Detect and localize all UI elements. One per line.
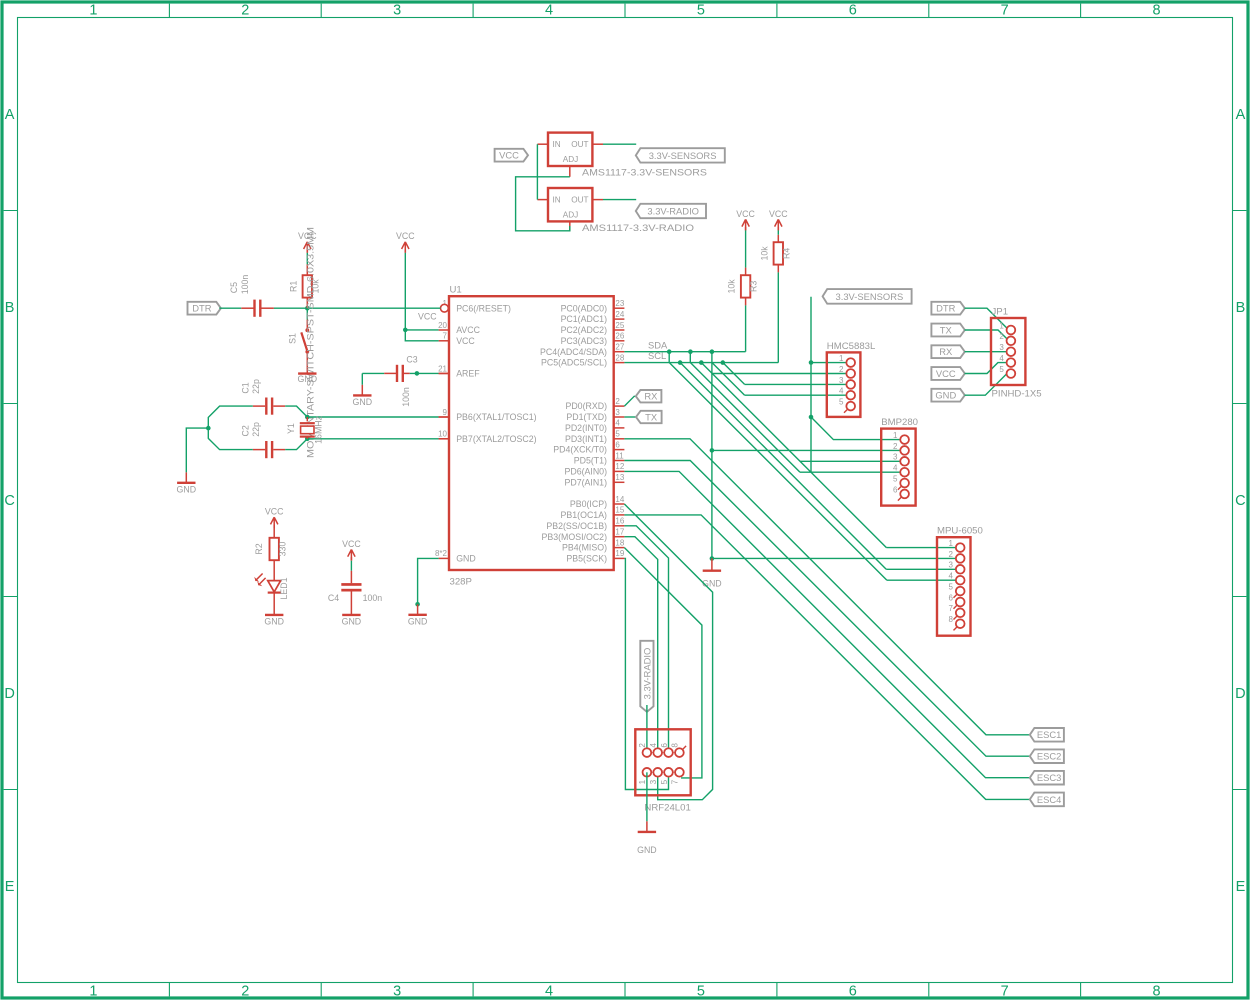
svg-text:A: A xyxy=(5,107,15,123)
net flag ESC1 xyxy=(1030,728,1064,742)
resistor R3 10k xyxy=(727,275,759,297)
svg-text:22p: 22p xyxy=(251,379,261,394)
U1 pin 18 PB4(MISO) xyxy=(562,538,625,552)
svg-text:C: C xyxy=(1235,493,1245,509)
supply VCC above R2 xyxy=(265,507,284,529)
svg-text:DTR: DTR xyxy=(192,303,211,314)
svg-text:4: 4 xyxy=(949,572,954,581)
svg-text:25: 25 xyxy=(615,321,624,330)
svg-text:6: 6 xyxy=(660,743,669,748)
svg-text:10: 10 xyxy=(438,430,447,439)
svg-text:20: 20 xyxy=(438,321,447,330)
svg-text:SDA: SDA xyxy=(648,339,668,350)
svg-text:BMP280: BMP280 xyxy=(881,417,918,428)
wire BMP pin4 xyxy=(800,471,900,473)
wire GND flag to JP1 pin5 xyxy=(965,374,1007,396)
svg-text:19: 19 xyxy=(615,549,624,558)
wire C5 to RESET junction xyxy=(261,307,307,309)
U1 pin 12 PD6(AIN0) xyxy=(564,462,624,476)
net flag TX at JP1 xyxy=(931,324,964,337)
supply VCC above R3 xyxy=(736,209,755,231)
svg-text:23: 23 xyxy=(615,299,624,308)
svg-text:3: 3 xyxy=(615,408,620,417)
node XTAL2 junction xyxy=(305,437,310,442)
svg-text:VCC: VCC xyxy=(769,209,788,219)
svg-text:6: 6 xyxy=(615,440,620,449)
supply VCC at U1 xyxy=(396,231,415,253)
svg-text:R3: R3 xyxy=(749,281,759,292)
svg-text:2: 2 xyxy=(893,442,898,451)
svg-text:3: 3 xyxy=(949,561,954,570)
svg-text:3.3V-SENSORS: 3.3V-SENSORS xyxy=(836,291,904,302)
svg-text:AREF: AREF xyxy=(456,369,480,379)
U1 pin 9 PB6(XTAL1/TOSC1) xyxy=(439,408,537,422)
svg-text:LED1: LED1 xyxy=(279,577,289,599)
svg-text:AVCC: AVCC xyxy=(456,325,480,335)
svg-text:6: 6 xyxy=(849,983,857,999)
U1 pin 7 VCC xyxy=(439,332,476,346)
U1 pin 23 PC0(ADC0) xyxy=(561,299,625,313)
wire SCL from U1 pin 28 xyxy=(624,362,778,364)
svg-text:PD0(RXD): PD0(RXD) xyxy=(565,401,607,411)
svg-text:3: 3 xyxy=(999,343,1004,352)
svg-text:ESC3: ESC3 xyxy=(1037,772,1062,783)
wire BMP pin2 from GND rail xyxy=(712,449,900,451)
supply VCC above R1 xyxy=(298,231,317,253)
net flag ESC3 xyxy=(1030,771,1064,785)
node SCL junction 1 xyxy=(678,360,683,365)
svg-text:6: 6 xyxy=(893,485,898,494)
svg-text:MPU-6050: MPU-6050 xyxy=(937,525,983,536)
wire diagonal to HMC pin3 xyxy=(723,363,745,385)
svg-text:2: 2 xyxy=(241,3,249,19)
svg-text:3: 3 xyxy=(393,3,401,19)
ground at MPU pin2 xyxy=(702,558,722,588)
svg-text:7: 7 xyxy=(949,604,954,613)
wire GND to C3 xyxy=(362,372,396,374)
wire to U1 pin 20 xyxy=(405,329,438,331)
value label of S1 xyxy=(306,227,316,458)
net flag RX at JP1 xyxy=(931,345,964,358)
wire HMC pin2 from GND rail xyxy=(712,373,847,375)
svg-text:10k: 10k xyxy=(759,246,769,261)
wire LED1 to ground xyxy=(273,593,275,615)
wire U1 pin 17 to NRF pin4 xyxy=(624,537,657,753)
svg-text:VCC: VCC xyxy=(396,231,415,241)
svg-text:JP1: JP1 xyxy=(992,306,1009,317)
node SDA junction 3 xyxy=(710,349,715,354)
svg-text:4: 4 xyxy=(545,983,553,999)
svg-text:D: D xyxy=(1235,686,1245,702)
resistor R2 330 xyxy=(254,538,288,560)
svg-text:1: 1 xyxy=(89,3,97,19)
svg-text:NRF24L01: NRF24L01 xyxy=(644,803,690,814)
wire HMC pin1 from rail xyxy=(811,362,846,364)
svg-text:1: 1 xyxy=(638,779,647,784)
supply VCC above R4 xyxy=(769,209,788,231)
svg-text:26: 26 xyxy=(615,332,624,341)
svg-text:28: 28 xyxy=(615,353,624,362)
svg-text:AMS1117-3.3V-SENSORS: AMS1117-3.3V-SENSORS xyxy=(582,168,707,179)
wire VCC to R4 xyxy=(777,227,779,242)
svg-text:3: 3 xyxy=(893,453,898,462)
svg-text:7: 7 xyxy=(671,779,680,784)
svg-text:3: 3 xyxy=(839,376,844,385)
svg-text:PD7(AIN1): PD7(AIN1) xyxy=(564,477,607,487)
wire C4 to ground xyxy=(350,592,352,615)
svg-text:328P: 328P xyxy=(450,576,472,587)
U1 pin 26 PC3(ADC3) xyxy=(561,332,625,346)
connector BMP280 xyxy=(881,417,918,505)
wire U1 pin 12 to ESC3 xyxy=(624,471,1029,777)
svg-text:2: 2 xyxy=(615,397,620,406)
U1 pin 17 PB3(MOSI/OC2) xyxy=(542,528,625,542)
wire U1 pin 5 to ESC1 xyxy=(624,439,1029,735)
U1 pin 21 AREF xyxy=(438,364,480,378)
net flag ESC2 xyxy=(1030,749,1064,763)
wire TX flag to JP1 pin2 xyxy=(965,330,1009,341)
U1 pin 10 PB7(XTAL2/TOSC2) xyxy=(438,430,537,444)
wire U1 pin 8*2 GND down xyxy=(418,558,439,604)
resistor R4 10k xyxy=(759,242,791,264)
net flag 3.3V-RADIO above NRF xyxy=(640,641,653,712)
svg-text:PB7(XTAL2/TOSC2): PB7(XTAL2/TOSC2) xyxy=(456,434,536,444)
svg-text:13: 13 xyxy=(615,473,624,482)
svg-text:C1: C1 xyxy=(240,382,250,393)
U1 pin 3 PD1(TXD) xyxy=(566,408,624,422)
wire VCC flag to JP1 pin4 xyxy=(965,363,1009,374)
svg-text:1: 1 xyxy=(893,431,898,440)
svg-text:PC3(ADC3): PC3(ADC3) xyxy=(561,336,608,346)
wire R2 to LED1 xyxy=(273,560,275,580)
svg-text:VCC: VCC xyxy=(456,336,475,346)
svg-text:C3: C3 xyxy=(406,354,417,364)
wire VCC to R3 xyxy=(745,227,747,275)
svg-text:ESC1: ESC1 xyxy=(1037,729,1062,740)
wire R1 to junction xyxy=(306,298,308,309)
svg-text:5: 5 xyxy=(697,3,705,19)
svg-text:100n: 100n xyxy=(401,387,411,407)
svg-text:1: 1 xyxy=(839,354,844,363)
svg-text:PC5(ADC5/SCL): PC5(ADC5/SCL) xyxy=(541,358,607,368)
connector JP1 PINHD-1X5 xyxy=(991,306,1042,399)
U1 pin 5 PD3(INT1) xyxy=(565,430,624,444)
svg-text:HMC5883L: HMC5883L xyxy=(827,341,876,352)
svg-text:22p: 22p xyxy=(251,422,261,437)
U1 pin 14 PB0(ICP) xyxy=(570,495,625,509)
svg-text:Y1: Y1 xyxy=(286,423,296,434)
svg-text:PB6(XTAL1/TOSC1): PB6(XTAL1/TOSC1) xyxy=(456,412,536,422)
svg-text:PC4(ADC4/SDA): PC4(ADC4/SDA) xyxy=(540,347,607,357)
svg-text:3: 3 xyxy=(649,779,658,784)
svg-text:1: 1 xyxy=(999,321,1004,330)
connector NRF24L01 xyxy=(635,729,691,813)
net flag GND at JP1 xyxy=(931,389,964,402)
wire U1 pin 2 to RX flag xyxy=(624,396,635,406)
svg-text:B: B xyxy=(1236,300,1246,316)
svg-text:A: A xyxy=(1236,107,1246,123)
svg-text:15: 15 xyxy=(615,506,624,515)
svg-text:5: 5 xyxy=(999,365,1004,374)
svg-text:4: 4 xyxy=(893,464,898,473)
svg-text:PD4(XCK/T0): PD4(XCK/T0) xyxy=(553,445,607,455)
svg-text:PC6(/RESET): PC6(/RESET) xyxy=(456,303,511,313)
net flag DTR at JP1 xyxy=(931,302,964,315)
svg-text:2: 2 xyxy=(638,743,647,748)
pin stub ADJ of U3 xyxy=(569,221,571,231)
svg-text:7: 7 xyxy=(443,332,448,341)
node GND rail to MPU pin2 xyxy=(710,556,715,561)
svg-text:ESC2: ESC2 xyxy=(1037,751,1062,762)
svg-text:4: 4 xyxy=(649,743,658,748)
svg-text:10k: 10k xyxy=(727,279,737,294)
svg-text:330: 330 xyxy=(278,542,288,557)
svg-text:DTR: DTR xyxy=(936,303,955,314)
svg-text:GND: GND xyxy=(935,390,956,401)
svg-text:1: 1 xyxy=(949,539,954,548)
regulator U2 AMS1117-3.3V-SENSORS xyxy=(548,133,707,179)
svg-text:11: 11 xyxy=(615,451,624,460)
node AREF junction xyxy=(415,371,420,376)
wire VCC input joining U2.IN to U3.IN xyxy=(536,144,538,199)
regulator U3 AMS1117-3.3V-RADIO xyxy=(548,188,694,234)
svg-text:C5: C5 xyxy=(229,282,239,293)
svg-text:1: 1 xyxy=(89,983,97,999)
svg-text:S1: S1 xyxy=(288,333,298,344)
svg-text:PD2(INT0): PD2(INT0) xyxy=(565,423,607,433)
U1 pin 19 PB5(SCK) xyxy=(566,549,624,563)
svg-text:B: B xyxy=(5,300,15,316)
svg-text:7: 7 xyxy=(1001,3,1009,19)
svg-text:9: 9 xyxy=(443,408,448,417)
node GND junction below U1 xyxy=(415,602,420,607)
svg-text:PD3(INT1): PD3(INT1) xyxy=(565,434,607,444)
capacitor C1 22p xyxy=(240,379,273,415)
node GND rail to BMP pin2 xyxy=(710,448,715,453)
wire SDA junction 1 drop to SCL row xyxy=(668,352,670,363)
wire HMC pin3 xyxy=(745,383,847,385)
wire BMP pin1 from rail xyxy=(811,417,900,440)
wire diagonal to MPU pin4 xyxy=(669,363,887,581)
svg-text:TX: TX xyxy=(940,324,953,335)
pin stub OUT of U2 xyxy=(592,143,603,145)
svg-text:4: 4 xyxy=(545,3,553,19)
svg-text:12: 12 xyxy=(615,462,624,471)
svg-text:GND: GND xyxy=(353,397,373,407)
svg-text:GND: GND xyxy=(342,617,362,627)
wire GND rail from SDA junction 3 xyxy=(711,352,713,559)
svg-text:3.3V-RADIO: 3.3V-RADIO xyxy=(641,648,652,700)
svg-text:6: 6 xyxy=(849,3,857,19)
net flag DTR xyxy=(188,302,221,315)
label C3 xyxy=(406,354,417,364)
svg-text:5: 5 xyxy=(839,398,844,407)
svg-text:GND: GND xyxy=(702,579,722,589)
svg-text:PC2(ADC2): PC2(ADC2) xyxy=(561,325,608,335)
wire XTAL2 junction to U1 pin 10 xyxy=(307,438,449,440)
ground below S1 xyxy=(298,374,318,384)
svg-text:8: 8 xyxy=(1153,3,1161,19)
svg-text:PB5(SCK): PB5(SCK) xyxy=(566,554,607,564)
wire SDA junction 2 drop to SCL row xyxy=(689,352,691,363)
svg-text:7: 7 xyxy=(1001,983,1009,999)
pin stub IN of U3 xyxy=(537,199,548,201)
svg-text:VCC: VCC xyxy=(736,209,755,219)
wire U3.OUT to 3.3V-RADIO xyxy=(603,199,636,201)
wire MPU pin4 xyxy=(887,579,956,581)
ground below crystal loop xyxy=(177,472,197,494)
wire R3 to SDA xyxy=(745,298,747,352)
svg-text:2: 2 xyxy=(949,550,954,559)
svg-text:3.3V-SENSORS: 3.3V-SENSORS xyxy=(649,150,717,161)
svg-text:4: 4 xyxy=(999,354,1004,363)
svg-text:PC0(ADC0): PC0(ADC0) xyxy=(561,303,608,313)
svg-text:5: 5 xyxy=(615,430,620,439)
svg-text:18: 18 xyxy=(615,538,624,547)
wire U1 pin 16 to NRF pin6 xyxy=(624,526,668,753)
node RESET junction xyxy=(305,306,310,311)
svg-text:IN: IN xyxy=(553,196,561,205)
wire junction down to U1 pin 7 xyxy=(405,330,438,341)
wire 3.3V-RADIO to NRF pin2 xyxy=(646,705,648,753)
wire C1 left loop xyxy=(208,406,265,439)
node XTAL1 junction xyxy=(305,415,310,420)
U1 pin 11 PD5(T1) xyxy=(574,451,625,465)
U1 pin 27 PC4(ADC4/SDA) xyxy=(540,343,625,357)
U1 pin 13 PD7(AIN1) xyxy=(564,473,624,487)
svg-text:27: 27 xyxy=(615,343,624,352)
capacitor C2 22p xyxy=(240,422,273,458)
svg-text:RX: RX xyxy=(939,346,953,357)
svg-text:24: 24 xyxy=(615,310,624,319)
svg-text:5: 5 xyxy=(949,583,954,592)
svg-text:5: 5 xyxy=(697,983,705,999)
svg-text:PB4(MISO): PB4(MISO) xyxy=(562,543,607,553)
supply flag VCC at regulators xyxy=(495,149,528,162)
capacitor C3 100n xyxy=(396,365,411,407)
svg-text:U1: U1 xyxy=(450,284,462,295)
svg-text:VCC: VCC xyxy=(499,150,519,161)
wire BMP pin3 xyxy=(800,460,900,462)
wire NRF pin1 to ground xyxy=(646,772,648,821)
svg-text:E: E xyxy=(5,879,15,895)
wire junction to S1 xyxy=(306,308,308,319)
svg-text:PD1(TXD): PD1(TXD) xyxy=(566,412,607,422)
supply VCC above C4 xyxy=(342,539,361,561)
node SDA junction 2 xyxy=(688,349,693,354)
net flag 3.3V-SENSORS at rail xyxy=(823,289,912,304)
svg-text:R4: R4 xyxy=(781,248,791,259)
svg-text:PC1(ADC1): PC1(ADC1) xyxy=(561,314,608,324)
wire VCC down to AVCC junction xyxy=(404,249,406,330)
crystal Y1 16MHz xyxy=(286,416,324,444)
net flag RX xyxy=(636,390,662,402)
wire diagonal to BMP pins 3,4 and MPU pin1 xyxy=(701,363,886,548)
wire C1 right to XTAL1 xyxy=(273,406,307,417)
label SCL xyxy=(648,350,666,361)
ground left of C3 xyxy=(353,373,373,407)
svg-text:8: 8 xyxy=(949,615,954,624)
U1 pin 4 PD2(INT0) xyxy=(565,419,624,433)
svg-text:2: 2 xyxy=(999,332,1004,341)
wire ADJ loop joining U2.ADJ to U3.ADJ xyxy=(516,177,570,231)
wire U1 pin 15 to ESC4 xyxy=(624,515,1029,800)
svg-text:4: 4 xyxy=(615,419,620,428)
wire U1 pin 19 to NRF pin5 xyxy=(624,558,668,789)
U1 pin 24 PC1(ADC1) xyxy=(561,310,625,324)
svg-text:R1: R1 xyxy=(288,281,298,292)
U1 pin 28 PC5(ADC5/SCL) xyxy=(541,353,625,367)
svg-text:OUT: OUT xyxy=(571,140,588,149)
wire C2 left loop xyxy=(208,438,265,449)
wire U1 pin 18 to NRF pin7 xyxy=(624,548,702,778)
svg-text:ESC4: ESC4 xyxy=(1037,794,1062,805)
net flag ESC4 xyxy=(1030,793,1064,807)
wire XTAL1 junction to U1 pin 9 xyxy=(307,416,449,418)
wire DTR flag to JP1 pin1 xyxy=(965,308,1009,330)
svg-text:VCC: VCC xyxy=(936,368,956,379)
node SDA junction 1 xyxy=(667,349,672,354)
U1 pin 15 PB1(OC1A) xyxy=(561,506,625,520)
pin stub OUT of U3 xyxy=(592,199,603,201)
wire U1 pin 14 to NRF pin3 xyxy=(624,504,712,800)
svg-text:16MHz: 16MHz xyxy=(313,416,323,444)
label SDA xyxy=(648,339,668,350)
wire MPU pin3 xyxy=(886,568,956,570)
svg-text:GND: GND xyxy=(456,554,476,564)
wire SDA from U1 pin 27 xyxy=(624,351,745,353)
svg-text:C4: C4 xyxy=(328,593,339,603)
svg-text:IN: IN xyxy=(553,140,561,149)
wire VCC to R1 xyxy=(306,249,308,275)
svg-text:OUT: OUT xyxy=(571,196,588,205)
svg-text:GND: GND xyxy=(177,485,197,495)
svg-text:VCC: VCC xyxy=(265,507,284,517)
node rail to HMC pin1 xyxy=(809,360,814,365)
wire U1 pin 11 to ESC2 xyxy=(624,461,1029,757)
svg-text:PB2(SS/OC1B): PB2(SS/OC1B) xyxy=(546,521,607,531)
U1 pin 2 PD0(RXD) xyxy=(565,397,624,411)
svg-text:ADJ: ADJ xyxy=(563,155,578,164)
resistor R1 10k xyxy=(288,275,320,297)
svg-text:8: 8 xyxy=(1153,983,1161,999)
op-amp U1 ATmega328P body xyxy=(449,284,614,587)
capacitor C4 100n xyxy=(328,583,382,603)
LED LED1 xyxy=(254,574,289,600)
svg-text:8*2: 8*2 xyxy=(435,549,448,558)
node SCL junction 3 xyxy=(721,360,726,365)
svg-text:6: 6 xyxy=(949,593,954,602)
svg-text:VCC: VCC xyxy=(342,539,361,549)
net flag VCC at JP1 xyxy=(931,367,964,380)
svg-text:2: 2 xyxy=(241,983,249,999)
svg-text:C2: C2 xyxy=(240,425,250,436)
U1 pin 20 AVCC xyxy=(438,321,481,335)
svg-text:5: 5 xyxy=(893,474,898,483)
pin stub ADJ of U2 xyxy=(569,166,571,177)
svg-text:16: 16 xyxy=(615,517,624,526)
wire DTR to C5 xyxy=(219,307,254,309)
wire VCC to R2 xyxy=(273,525,275,538)
wire MPU pin1 xyxy=(886,547,956,549)
svg-text:PD5(T1): PD5(T1) xyxy=(574,456,607,466)
ground below U1 xyxy=(408,604,428,626)
wire C3 to AREF xyxy=(403,372,449,374)
node SCL junction 2 xyxy=(699,360,704,365)
ground below NRF xyxy=(637,821,657,855)
net flag 3.3V-SENSORS at U2 output xyxy=(636,148,725,162)
svg-text:PD6(AIN0): PD6(AIN0) xyxy=(564,467,607,477)
